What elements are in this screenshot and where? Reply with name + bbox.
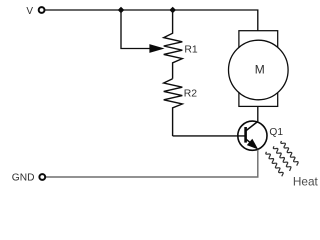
transistor Q1 emitter stroke — [246, 139, 251, 143]
transistor Q1 circle — [238, 121, 267, 150]
terminal V — [39, 7, 45, 13]
svg-text:V: V — [26, 6, 33, 17]
resistor R1 — [164, 10, 183, 79]
wire R2 to base — [173, 135, 246, 137]
node junction wiper branch — [118, 7, 125, 14]
transistor Q1 collector stroke — [246, 122, 258, 131]
node junction R1 top — [169, 7, 176, 14]
wire motor to collector — [257, 106, 259, 121]
svg-text:Q1: Q1 — [269, 127, 283, 138]
heat squiggle 2 — [273, 146, 291, 171]
svg-text:Heat: Heat — [293, 175, 319, 189]
wire emitter to ground rail — [45, 150, 258, 177]
terminal GND — [39, 174, 45, 180]
svg-text:R2: R2 — [184, 89, 198, 100]
transistor Q1 emitter arrowhead — [247, 139, 258, 150]
svg-text:GND: GND — [12, 173, 35, 184]
motor M body rect — [239, 31, 278, 107]
resistor R2 — [164, 79, 183, 136]
svg-text:M: M — [255, 63, 265, 77]
heat squiggle 1 — [266, 152, 283, 177]
transistor Q1 base bar — [244, 127, 247, 143]
wiper arrowhead — [149, 44, 164, 53]
svg-text:R1: R1 — [184, 45, 198, 56]
heat squiggle 3 — [281, 141, 298, 166]
wire V rail top — [45, 10, 258, 31]
wire wiper branch — [121, 10, 151, 49]
motor M circle — [228, 40, 288, 100]
